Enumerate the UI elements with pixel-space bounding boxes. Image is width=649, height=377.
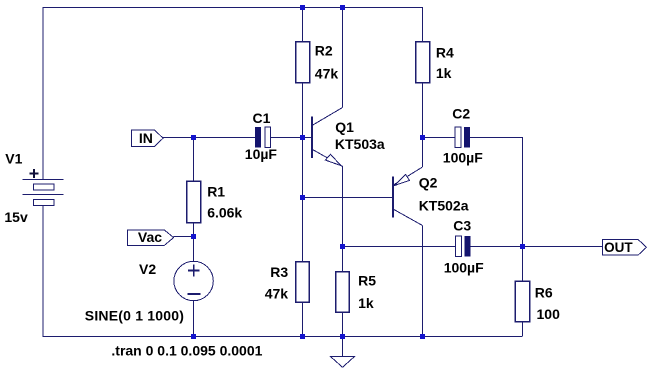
svg-text:Vac: Vac xyxy=(138,229,162,245)
svg-text:10µF: 10µF xyxy=(245,146,278,162)
svg-text:.tran 0 0.1 0.095 0.0001: .tran 0 0.1 0.095 0.0001 xyxy=(111,343,262,359)
svg-text:R3: R3 xyxy=(270,264,288,280)
svg-text:1k: 1k xyxy=(436,65,452,81)
svg-text:100µF: 100µF xyxy=(444,260,484,276)
svg-text:R5: R5 xyxy=(358,272,376,288)
svg-text:47k: 47k xyxy=(265,286,289,302)
svg-text:1k: 1k xyxy=(358,295,374,311)
svg-text:C2: C2 xyxy=(452,105,470,121)
svg-text:KT503a: KT503a xyxy=(335,136,385,152)
svg-text:100µF: 100µF xyxy=(443,150,483,166)
svg-text:47k: 47k xyxy=(315,66,339,82)
svg-text:6.06k: 6.06k xyxy=(207,204,242,220)
svg-text:R1: R1 xyxy=(207,183,225,199)
svg-text:C3: C3 xyxy=(453,218,471,234)
svg-text:R6: R6 xyxy=(535,285,553,301)
svg-text:KT502a: KT502a xyxy=(419,197,469,213)
svg-text:100: 100 xyxy=(537,306,561,322)
svg-text:SINE(0 1 1000): SINE(0 1 1000) xyxy=(85,307,184,323)
svg-text:15v: 15v xyxy=(4,209,28,225)
svg-text:V1: V1 xyxy=(5,151,22,167)
svg-text:IN: IN xyxy=(139,130,153,146)
svg-text:Q1: Q1 xyxy=(335,119,354,135)
svg-text:OUT: OUT xyxy=(604,240,633,255)
svg-text:V2: V2 xyxy=(139,261,156,277)
svg-text:Q2: Q2 xyxy=(419,175,438,191)
svg-text:R4: R4 xyxy=(436,44,454,60)
svg-text:R2: R2 xyxy=(315,43,333,59)
svg-text:C1: C1 xyxy=(253,110,271,126)
